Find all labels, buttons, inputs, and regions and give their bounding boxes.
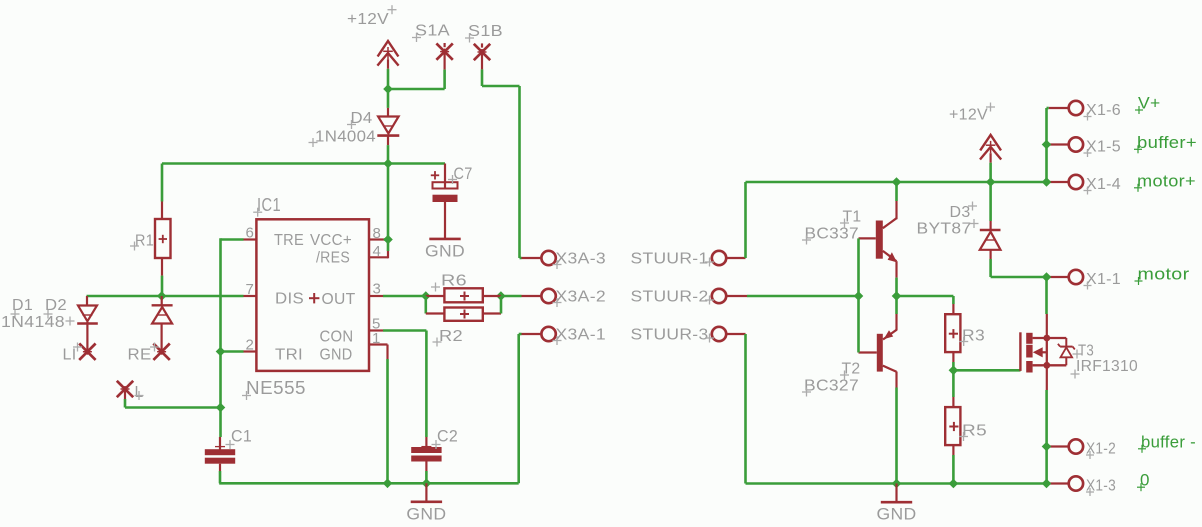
svg-text:R6: R6: [441, 273, 467, 290]
svg-text:STUUR-3: STUUR-3: [631, 326, 709, 343]
svg-text:X3A-2: X3A-2: [556, 288, 607, 305]
svg-text:BYT87: BYT87: [917, 221, 972, 238]
svg-text:1N4004: 1N4004: [315, 129, 376, 146]
svg-text:C2: C2: [437, 427, 458, 446]
svg-text:STUUR-2: STUUR-2: [631, 288, 709, 305]
svg-text:R1: R1: [135, 233, 154, 250]
svg-text:GND: GND: [320, 346, 353, 363]
svg-text:motor+: motor+: [1137, 171, 1196, 190]
svg-text:X3A-3: X3A-3: [556, 250, 607, 267]
svg-text:OUT: OUT: [322, 291, 356, 308]
svg-text:T3: T3: [1078, 343, 1094, 360]
svg-text:+12V: +12V: [949, 107, 988, 124]
svg-text:buffer -: buffer -: [1141, 432, 1196, 451]
svg-text:1N4148: 1N4148: [1, 314, 65, 331]
svg-text:R2: R2: [439, 328, 463, 345]
svg-text:DIS: DIS: [275, 291, 304, 308]
svg-text:GND: GND: [877, 505, 917, 524]
svg-text:VCC+: VCC+: [310, 232, 352, 249]
svg-text:X3A-1: X3A-1: [556, 326, 607, 343]
svg-text:buffer+: buffer+: [1137, 133, 1197, 152]
svg-text:motor: motor: [1138, 265, 1190, 284]
svg-text:/RES: /RES: [316, 250, 350, 267]
svg-text:IRF1310: IRF1310: [1076, 358, 1138, 375]
svg-text:+12V: +12V: [347, 11, 389, 28]
svg-text:CON: CON: [320, 329, 354, 346]
svg-text:D3: D3: [950, 204, 971, 221]
svg-text:LI: LI: [63, 347, 77, 364]
svg-text:NE555: NE555: [246, 378, 306, 398]
svg-text:C1: C1: [231, 427, 252, 446]
svg-text:TRE: TRE: [274, 232, 304, 249]
svg-text:BC327: BC327: [804, 378, 859, 395]
svg-text:BC337: BC337: [805, 226, 860, 243]
svg-text:STUUR-1: STUUR-1: [631, 250, 709, 267]
svg-text:TRI: TRI: [275, 346, 303, 363]
svg-text:GND: GND: [406, 504, 446, 523]
svg-text:GND: GND: [425, 241, 465, 260]
svg-text:RE: RE: [128, 347, 152, 364]
